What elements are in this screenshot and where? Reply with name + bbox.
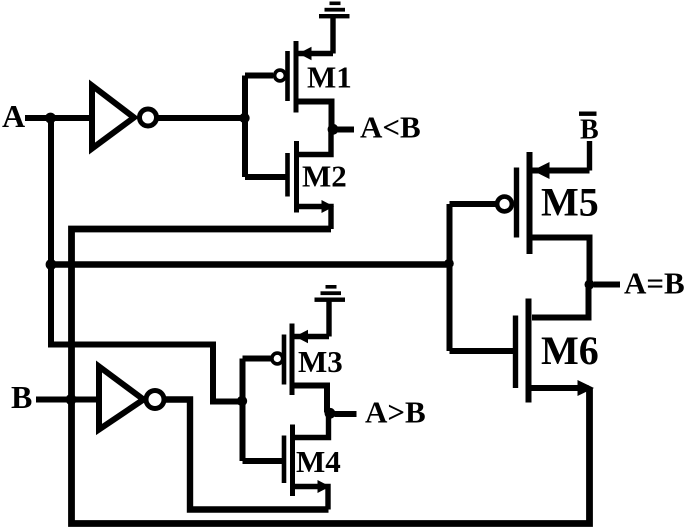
- svg-text:M1: M1: [307, 60, 352, 95]
- node A-equals-B output dot: [585, 280, 595, 290]
- transistor M2 source arrow: [322, 200, 335, 213]
- transistor M2 channel line: [294, 141, 299, 213]
- wire bus from M2 source around bottom to M6 source: [72, 229, 590, 524]
- wire M4 source lead: [295, 487, 328, 510]
- wire stub to M2 gate: [245, 174, 286, 180]
- wire M3 drain lead: [295, 386, 328, 413]
- wire M5 drain lead: [532, 238, 590, 285]
- svg-text:A=B: A=B: [624, 266, 685, 301]
- inverter U1 bubble: [140, 109, 157, 126]
- wire U1 output: [157, 115, 245, 121]
- transistor M5 source arrow: [533, 162, 550, 179]
- wire M6 gate lead: [450, 348, 517, 354]
- node bus-A junction dot: [46, 259, 57, 270]
- wire A vertical feedback: [48, 118, 54, 348]
- wire M2 source lead: [299, 207, 331, 230]
- transistor M4 gate line: [282, 436, 287, 484]
- transistor M3 gate bubble: [272, 353, 283, 364]
- wire A-equals-B output stub: [594, 282, 620, 288]
- svg-text:B: B: [580, 115, 599, 146]
- node B-bar overbar: [579, 112, 597, 116]
- node A-greater-B output dot: [325, 408, 336, 419]
- wire gate bus M5/M6: [447, 204, 453, 351]
- wire stub to M1 gate bubble: [245, 73, 273, 79]
- wire A-less-B output stub: [337, 127, 354, 133]
- svg-text:M4: M4: [296, 444, 341, 479]
- wire B-bar input vertical: [587, 141, 592, 171]
- transistor M5 gate line: [514, 168, 519, 238]
- wire stub to M3 gate bubble: [243, 356, 272, 362]
- node A-less-B output dot: [328, 124, 339, 135]
- wire A-greater-B output stub: [335, 411, 357, 417]
- svg-text:A>B: A>B: [365, 395, 426, 430]
- svg-text:M5: M5: [541, 180, 599, 225]
- inverter U2 bubble: [146, 391, 164, 409]
- wire M1 source lead: [298, 51, 333, 56]
- wire stub to M4 gate: [243, 458, 283, 464]
- svg-text:M3: M3: [298, 344, 343, 379]
- wire long bus A to M5/M6 gates: [51, 261, 450, 267]
- transistor M2 gate line: [285, 153, 290, 197]
- node B junction dot: [66, 394, 77, 405]
- inverter U1 triangle: [92, 86, 134, 149]
- transistor M1 gate line: [285, 51, 290, 101]
- node M3/M4 gate junction dot: [237, 396, 247, 406]
- power VDD symbol 2 bars: [315, 285, 346, 302]
- inverter U2 triangle: [99, 367, 144, 430]
- transistor M1 channel line: [294, 41, 299, 113]
- node U1 output junction dot: [239, 113, 249, 123]
- svg-text:A<B: A<B: [360, 110, 421, 145]
- wire stub to M5 gate bubble: [450, 201, 497, 207]
- transistor M6 source arrow: [578, 380, 595, 396]
- wire A to M3/M4 gate bus: [51, 345, 240, 402]
- transistor M4 channel line: [290, 425, 295, 497]
- wire gate bus M3/M4: [240, 359, 246, 462]
- wire B input: [36, 397, 99, 403]
- transistor M5 channel line: [527, 152, 533, 254]
- wire M3 source lead: [295, 334, 330, 339]
- wire M2 drain lead: [299, 129, 331, 155]
- node M5/M6 gate junction dot: [444, 259, 454, 269]
- transistor M3 channel line: [290, 324, 295, 396]
- node A junction dot: [45, 113, 56, 124]
- transistor M5 gate bubble: [497, 197, 512, 212]
- wire M4 drain lead: [295, 413, 329, 438]
- transistor M3 gate line: [282, 335, 287, 385]
- svg-text:B: B: [11, 379, 32, 415]
- wire M6 drain lead: [532, 285, 589, 318]
- power VDD symbol 1 bars: [319, 2, 350, 19]
- svg-text:M6: M6: [541, 328, 599, 373]
- transistor M6 gate line: [513, 316, 518, 389]
- power VDD symbol 1 stem: [330, 17, 335, 54]
- wire A input: [25, 115, 92, 121]
- wire M6 source lead: [532, 385, 589, 391]
- wire U2 output to M4 source bus: [165, 400, 329, 510]
- svg-text:A: A: [2, 98, 25, 134]
- transistor M1 gate bubble: [275, 70, 286, 81]
- wire gate bus M1/M2: [242, 76, 248, 178]
- wire M1 drain lead: [298, 102, 332, 130]
- svg-text:M2: M2: [302, 159, 347, 194]
- wire M5 source lead: [532, 168, 590, 174]
- transistor M1 source arrow: [299, 47, 312, 60]
- power VDD symbol 2 stem: [326, 300, 331, 337]
- transistor M4 source arrow: [318, 480, 331, 493]
- transistor M6 channel line: [526, 299, 532, 403]
- transistor M3 source arrow: [295, 330, 308, 343]
